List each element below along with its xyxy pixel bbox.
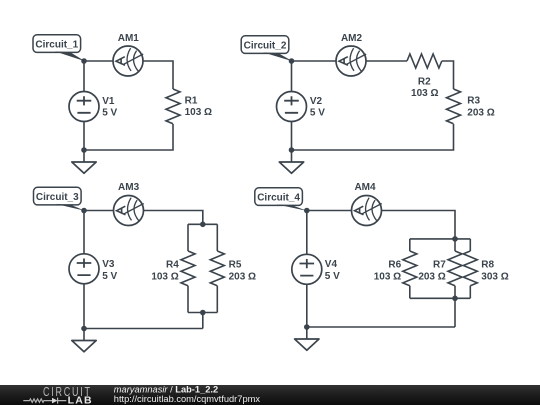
svg-text:203 Ω: 203 Ω <box>418 271 445 282</box>
svg-text:R3: R3 <box>467 96 480 107</box>
svg-text:AM3: AM3 <box>118 182 140 193</box>
svg-text:R8: R8 <box>481 260 494 271</box>
svg-text:V3: V3 <box>102 259 115 270</box>
svg-text:V1: V1 <box>102 96 115 107</box>
svg-text:Circuit_3: Circuit_3 <box>36 192 79 203</box>
svg-text:103 Ω: 103 Ω <box>374 271 401 282</box>
svg-text:R7: R7 <box>433 260 446 271</box>
svg-text:Circuit_4: Circuit_4 <box>257 193 300 204</box>
svg-text:5 V: 5 V <box>325 271 340 282</box>
svg-text:Circuit_2: Circuit_2 <box>244 41 287 52</box>
svg-text:R6: R6 <box>388 260 401 271</box>
svg-text:AM1: AM1 <box>118 33 140 44</box>
svg-text:LAB: LAB <box>68 394 93 405</box>
svg-text:203 Ω: 203 Ω <box>229 271 256 282</box>
svg-text:103 Ω: 103 Ω <box>411 88 438 99</box>
svg-text:AM4: AM4 <box>354 182 376 193</box>
svg-text:Circuit_1: Circuit_1 <box>35 40 78 51</box>
svg-text:V2: V2 <box>310 96 323 107</box>
svg-text:203 Ω: 203 Ω <box>467 107 494 118</box>
svg-text:V4: V4 <box>325 259 338 270</box>
svg-text:103 Ω: 103 Ω <box>151 271 178 282</box>
svg-text:http://circuitlab.com/cqmvtfud: http://circuitlab.com/cqmvtfudr7pmx <box>114 394 261 404</box>
svg-text:R2: R2 <box>418 76 431 87</box>
svg-text:R4: R4 <box>166 260 179 271</box>
svg-text:maryamnasir / Lab-1_2.2: maryamnasir / Lab-1_2.2 <box>114 384 218 394</box>
svg-text:R5: R5 <box>229 260 242 271</box>
svg-text:5 V: 5 V <box>310 107 325 118</box>
svg-text:303 Ω: 303 Ω <box>481 271 508 282</box>
svg-text:AM2: AM2 <box>341 33 363 44</box>
svg-text:5 V: 5 V <box>102 107 117 118</box>
svg-text:5 V: 5 V <box>102 271 117 282</box>
svg-text:103 Ω: 103 Ω <box>185 107 212 118</box>
svg-text:R1: R1 <box>185 95 198 106</box>
